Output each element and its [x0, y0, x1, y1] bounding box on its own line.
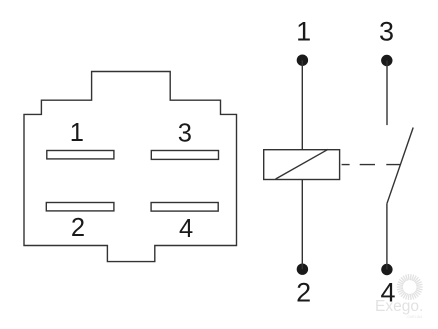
svg-text:1: 1	[70, 119, 84, 147]
svg-text:4: 4	[380, 278, 395, 308]
wire terminal3 to contact	[386, 61, 388, 126]
pin slot 3	[151, 151, 218, 160]
switch blade	[387, 128, 413, 204]
terminal dot 1	[297, 55, 308, 66]
svg-text:2: 2	[71, 214, 85, 242]
connector body outline	[24, 72, 237, 262]
terminal dot 3	[381, 55, 392, 66]
svg-text:1: 1	[296, 17, 311, 47]
svg-text:3: 3	[379, 17, 394, 47]
wire contact to terminal4	[386, 204, 388, 270]
wire coil to terminal2	[301, 180, 303, 270]
svg-text:4: 4	[179, 215, 193, 243]
coil K1	[264, 150, 340, 180]
watermark logo sunburst	[397, 274, 423, 300]
terminal dot 4	[381, 264, 392, 275]
pin slot 2	[46, 203, 114, 211]
coil diagonal	[276, 149, 329, 179]
svg-text:3: 3	[178, 119, 192, 147]
pin slot 4	[151, 203, 218, 212]
pin slot 1	[47, 151, 114, 159]
svg-text:.com.au: .com.au	[406, 314, 423, 319]
dashed actuation link	[342, 164, 400, 166]
svg-text:2: 2	[296, 278, 311, 308]
wire terminal1 to coil	[301, 60, 303, 150]
terminal dot 2	[297, 264, 308, 275]
